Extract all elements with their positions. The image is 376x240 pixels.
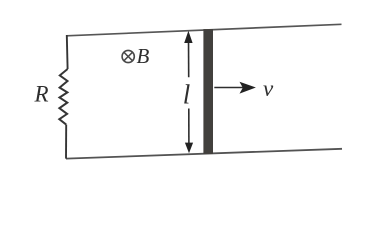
- svg-text:R: R: [34, 82, 49, 107]
- dimension arrow for l: bottom arrowhead: [185, 143, 193, 154]
- svg-text:l: l: [183, 80, 191, 110]
- dimension arrow for l: top shaft: [188, 38, 190, 77]
- svg-text:B: B: [137, 44, 150, 68]
- dimension arrow for l: bottom shaft: [188, 109, 190, 146]
- wire: left vertical (top segment): [66, 35, 69, 69]
- velocity arrow: shaft: [214, 87, 243, 89]
- svg-text:ν: ν: [263, 76, 274, 101]
- velocity arrow: head: [240, 82, 256, 94]
- wire: left vertical (bottom segment): [65, 125, 67, 159]
- sliding rod (conducting bar): [203, 29, 213, 154]
- field symbol: X inside circle: [124, 52, 132, 60]
- field symbol: circle of B-into-page: [122, 50, 134, 62]
- dimension arrow for l: top arrowhead: [184, 31, 192, 43]
- wire: bottom rail: [66, 149, 342, 159]
- resistor R (zigzag): [59, 69, 67, 125]
- wire: top rail: [67, 24, 342, 36]
